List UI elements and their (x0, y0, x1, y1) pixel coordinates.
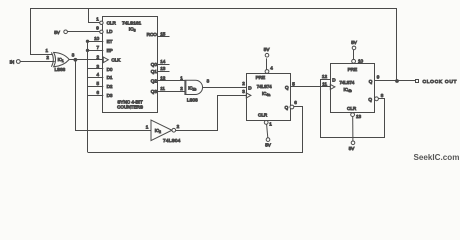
svg-text:7: 7 (96, 45, 99, 50)
pin bubble FF2 PRE pin 10 (352, 59, 356, 63)
svg-text:D2: D2 (107, 84, 113, 89)
pin bubble FF1 notQ pin 6 (290, 105, 294, 109)
svg-text:5V: 5V (349, 146, 356, 151)
pin bubble counter LD (100, 30, 103, 33)
terminal IN (16, 60, 20, 64)
terminal 5V FF2 CLR (351, 141, 355, 145)
terminal 5V FF1 PRE (265, 53, 269, 57)
svg-text:LS08: LS08 (187, 97, 198, 102)
svg-text:IC2: IC2 (155, 128, 161, 134)
svg-text:8: 8 (381, 93, 384, 98)
wire FF1 PRE to 5V (266, 58, 268, 69)
svg-text:6: 6 (294, 100, 297, 105)
svg-text:74LS161: 74LS161 (122, 20, 142, 26)
wire FF1 CLR to 5V (267, 124, 268, 138)
svg-text:1: 1 (46, 48, 49, 53)
svg-text:4: 4 (96, 72, 99, 77)
svg-text:3: 3 (207, 79, 210, 84)
svg-text:ET: ET (107, 39, 113, 44)
svg-text:2: 2 (242, 81, 245, 86)
wire counter Q0 pin 14 stub (158, 64, 170, 66)
wire IN to XOR input 2 (20, 61, 54, 63)
wire XOR output down to inverter input (76, 60, 151, 131)
svg-text:5V: 5V (265, 143, 272, 148)
gate inverter IC2 74LS04 (146, 120, 181, 143)
wire FF2 Q pin 9 to CLOCK OUT terminal (375, 80, 416, 82)
svg-text:SeekIC.com: SeekIC.com (414, 153, 460, 162)
wire counter Q2 pin 12 to AND input 1 (158, 80, 185, 82)
svg-text:2: 2 (46, 55, 49, 60)
svg-text:LD: LD (107, 29, 114, 34)
gate and IC1b LS08 (180, 76, 209, 103)
svg-text:IC1: IC1 (58, 57, 64, 63)
svg-text:15: 15 (160, 32, 166, 37)
svg-text:74LS74: 74LS74 (257, 84, 272, 89)
clk edge triangle (103, 57, 108, 63)
svg-text:5V: 5V (264, 47, 271, 52)
node junction XOR output (74, 58, 78, 62)
svg-text:CLK: CLK (111, 58, 121, 63)
wire feedback: clock-out node up, across top, down to XOR input 1 (31, 9, 397, 81)
wire counter D3 pin 6 (88, 95, 104, 97)
wire FF2 notQ loop to FF2 D pin 12 (321, 80, 385, 138)
svg-text:CLOCK OUT: CLOCK OUT (423, 79, 458, 85)
flip-flop IC4a 74LS74 (246, 74, 290, 121)
wire counter Q1 pin 13 stub (158, 71, 170, 73)
svg-text:CLR: CLR (258, 112, 268, 117)
wire FF1 Q pin 5 to FF2 CLK pin 11 (290, 86, 330, 88)
wire counter CLR pin 1 from top feedback (89, 9, 100, 23)
svg-text:5: 5 (96, 81, 99, 86)
svg-text:RCO: RCO (147, 32, 158, 37)
svg-text:11: 11 (322, 81, 327, 86)
node junction on clock-out line (395, 79, 399, 83)
clk edge triangle (246, 93, 251, 98)
svg-text:3: 3 (72, 53, 75, 58)
svg-text:Q: Q (285, 105, 289, 110)
pin bubble FF2 notQ pin 8 (375, 97, 379, 101)
svg-text:EP: EP (107, 48, 113, 53)
svg-text:11: 11 (160, 86, 165, 91)
svg-text:LS86: LS86 (55, 67, 66, 72)
svg-text:Q1: Q1 (151, 69, 158, 74)
gate xor IC1 LS86 (46, 48, 75, 72)
counter IC3 74LS161 (103, 17, 158, 113)
wire counter D2 pin 5 (88, 86, 104, 88)
svg-text:COUNTERS: COUNTERS (117, 105, 143, 110)
svg-text:5V: 5V (351, 40, 358, 45)
svg-text:Q3: Q3 (151, 89, 158, 94)
svg-text:14: 14 (160, 59, 166, 64)
wire counter D1 pin 4 (88, 77, 104, 79)
svg-text:1: 1 (146, 125, 149, 130)
svg-text:PRE: PRE (256, 75, 265, 80)
svg-text:9: 9 (96, 26, 99, 31)
svg-text:9: 9 (377, 75, 380, 80)
wire counter LD pin 9 to 5V (67, 31, 99, 33)
wire XOR output to counter CLK pin 2 (69, 59, 103, 61)
wire bottom rail to FF1 notQ riser (88, 107, 303, 153)
svg-text:74LS04: 74LS04 (163, 138, 181, 143)
svg-text:5: 5 (292, 81, 295, 86)
wire counter EP pin 7 (88, 50, 104, 52)
svg-text:2: 2 (177, 124, 180, 129)
svg-text:IN: IN (10, 59, 15, 64)
svg-text:Q: Q (285, 85, 289, 90)
terminal CLOCK OUT (416, 80, 419, 83)
svg-text:Q: Q (368, 97, 372, 102)
wire FF2 PRE to 5V (353, 50, 355, 60)
svg-text:74LS74: 74LS74 (340, 80, 355, 85)
svg-text:2: 2 (180, 86, 183, 91)
node junction EP bus (86, 49, 89, 52)
wire inverter output to FF1 CLK pin 3 (176, 96, 247, 131)
svg-text:1: 1 (96, 17, 99, 22)
svg-text:Q2: Q2 (151, 79, 158, 84)
svg-text:12: 12 (160, 76, 166, 81)
pin bubble FF2 CLR pin 13 (351, 113, 355, 117)
svg-text:2: 2 (96, 55, 99, 60)
flip-flop IC4b 74LS74 (330, 64, 374, 113)
svg-text:6: 6 (96, 90, 99, 95)
svg-text:CLR: CLR (107, 20, 117, 25)
svg-text:3: 3 (242, 89, 245, 94)
wire FF2 CLR to 5V (352, 117, 354, 142)
svg-text:PRE: PRE (348, 67, 357, 72)
terminal 5V FF2 PRE (352, 46, 356, 50)
svg-text:10: 10 (94, 36, 100, 41)
svg-text:D3: D3 (107, 93, 113, 98)
pin bubble FF1 PRE pin 4 (265, 70, 269, 74)
svg-text:10: 10 (358, 58, 364, 63)
clk edge triangle (330, 84, 335, 89)
pin bubble FF1 CLR pin 1 (264, 121, 268, 125)
svg-text:4: 4 (270, 66, 273, 71)
pin bubble counter CLR (100, 21, 103, 24)
svg-text:1: 1 (180, 76, 183, 81)
svg-text:13: 13 (356, 114, 362, 119)
svg-text:13: 13 (160, 66, 166, 71)
wire AND output to FF1 D pin 2 (203, 87, 247, 89)
svg-text:5V: 5V (54, 30, 61, 35)
svg-text:D0: D0 (107, 67, 113, 72)
svg-text:3: 3 (96, 64, 99, 69)
wire bus ET EP D0-D3 down to bottom rail (87, 41, 89, 152)
terminal 5V FF1 CLR (266, 138, 270, 142)
svg-text:12: 12 (322, 74, 328, 79)
terminal 5V for LD (64, 30, 68, 34)
svg-text:Q: Q (369, 79, 373, 84)
wire counter ET pin 10 (88, 41, 104, 43)
wire counter D0 pin 3 (88, 68, 104, 70)
svg-text:D1: D1 (107, 75, 113, 80)
wire counter Q3 pin 11 to AND input 2 (158, 91, 185, 93)
node junction ET bus (86, 40, 89, 43)
wire counter RCO pin 15 stub (158, 36, 170, 38)
svg-text:1: 1 (269, 122, 272, 127)
svg-text:CLR: CLR (347, 106, 357, 111)
svg-text:IC1b: IC1b (188, 85, 196, 91)
svg-text:Q0: Q0 (151, 62, 158, 67)
